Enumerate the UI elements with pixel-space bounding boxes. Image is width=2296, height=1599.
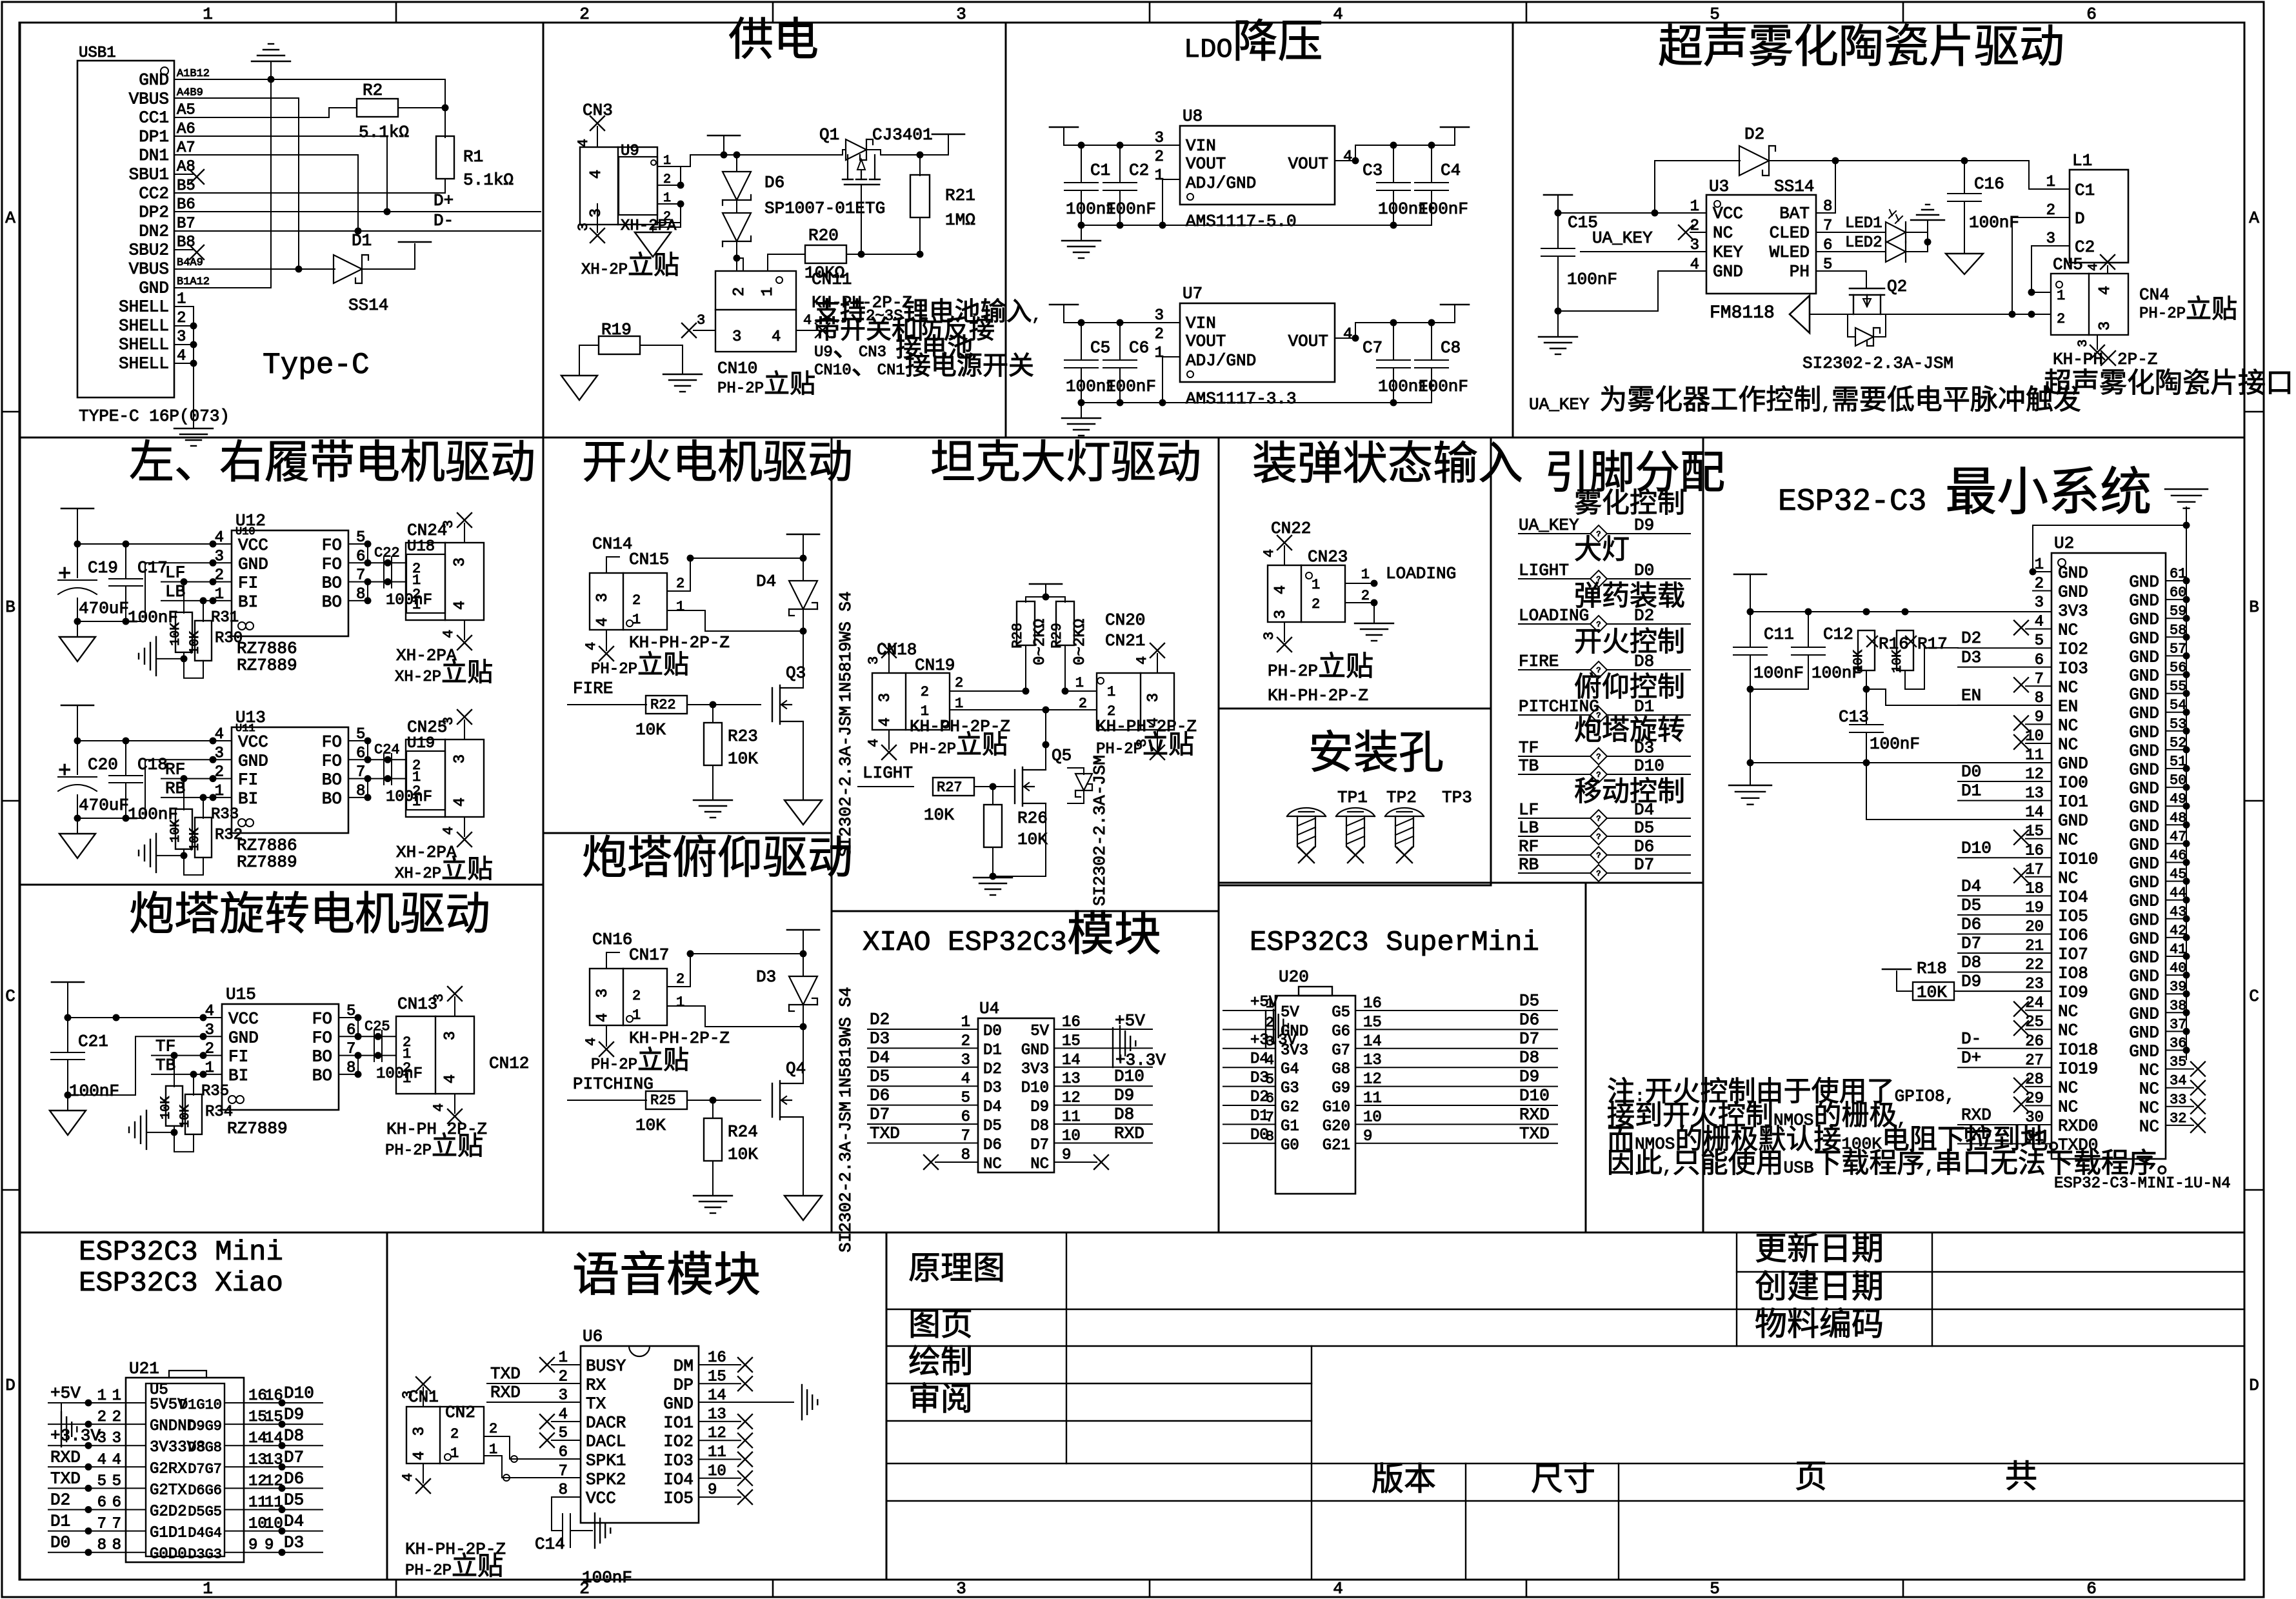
svg-text:UA_KEY: UA_KEY	[1592, 228, 1653, 248]
resistor R29 0-2K	[1056, 601, 1074, 645]
wire source down to gnd triangle	[803, 1117, 804, 1194]
svg-text:2: 2	[2057, 311, 2065, 327]
svg-text:VOUT: VOUT	[1288, 154, 1328, 174]
svg-text:RXD: RXD	[1961, 1105, 1992, 1125]
svg-text:D6: D6	[1634, 837, 1654, 856]
wire U4 right pin 10	[1054, 1142, 1152, 1143]
svg-text:左、右履带电机驱动: 左、右履带电机驱动	[129, 439, 535, 492]
svg-text:GND: GND	[228, 1028, 259, 1047]
svg-text:SI2302-2.3A-JSM: SI2302-2.3A-JSM	[1802, 354, 1953, 373]
svg-text:C1: C1	[1090, 161, 1110, 180]
svg-text:5.1kΩ: 5.1kΩ	[463, 170, 514, 190]
no-connect U2 pin 17	[2026, 876, 2051, 878]
svg-text:G6: G6	[1332, 1023, 1350, 1040]
wire L1 pin2 down to drain rail	[2012, 217, 2070, 314]
svg-text:D10: D10	[1634, 756, 1664, 776]
svg-text:13: 13	[1062, 1071, 1081, 1088]
svg-text:IO5: IO5	[663, 1489, 694, 1508]
svg-text:SPK1: SPK1	[586, 1451, 626, 1471]
svg-text:R22: R22	[650, 697, 676, 713]
svg-text:D8: D8	[1030, 1118, 1049, 1135]
wire R18 left to tap	[1897, 971, 1913, 991]
svg-text:AMS1117-5.0: AMS1117-5.0	[1186, 212, 1297, 231]
svg-text:R35: R35	[201, 1083, 229, 1100]
svg-text:4: 4	[877, 718, 894, 727]
wire U21 right pin 11	[225, 1509, 323, 1511]
svg-text:BI: BI	[238, 592, 258, 612]
svg-text:供电: 供电	[728, 16, 819, 69]
svg-text:2: 2	[1155, 326, 1164, 343]
capacitor C16	[1964, 161, 1965, 194]
svg-text:7: 7	[112, 1516, 121, 1533]
svg-text:RZ7889: RZ7889	[237, 852, 297, 872]
wire GND pin jog	[68, 1036, 222, 1095]
svg-text:G5: G5	[1332, 1004, 1350, 1021]
wire U2 pin 5	[1958, 647, 2051, 649]
connector CN5/CN4 atomizer interface	[2051, 274, 2128, 335]
svg-text:R23: R23	[728, 727, 758, 746]
svg-text:10K: 10K	[728, 749, 758, 769]
connector USB1 Type-C receptacle	[77, 61, 174, 397]
input power tap	[52, 981, 84, 983]
svg-text:9: 9	[248, 1537, 257, 1554]
svg-text:2: 2	[663, 172, 671, 187]
svg-text:GND: GND	[2129, 873, 2159, 892]
svg-text:3: 3	[1272, 610, 1290, 619]
svg-text:弹药装载: 弹药装载	[1574, 581, 1685, 614]
wire U2 pin 13	[1958, 800, 2051, 801]
wire U2 pin 16	[1958, 857, 2051, 858]
wire diode to drain node	[803, 1005, 804, 1027]
wire U2 pin 8	[1958, 705, 2051, 706]
ground symbol	[1081, 225, 1082, 239]
gnd rail under input caps	[1081, 368, 1163, 403]
svg-text:尺寸: 尺寸	[1531, 1462, 1595, 1500]
svg-text:D7: D7	[1519, 1029, 1539, 1049]
svg-text:R27: R27	[937, 779, 963, 796]
svg-text:4: 4	[1343, 148, 1352, 166]
svg-text:VCC: VCC	[586, 1489, 616, 1508]
svg-text:11: 11	[1363, 1090, 1382, 1107]
svg-text:D4: D4	[284, 1512, 304, 1531]
section box XIAO ESP32C3 module	[832, 911, 1219, 1232]
wire U2 pin 19	[1958, 914, 2051, 916]
resistor R25 10K gate	[646, 1091, 687, 1109]
svg-text:U8: U8	[1183, 106, 1203, 126]
svg-text:GND: GND	[2129, 798, 2159, 817]
capacitor C6	[1119, 323, 1121, 360]
svg-text:AMS1117-3.3: AMS1117-3.3	[1186, 389, 1297, 408]
svg-text:D9G9: D9G9	[188, 1418, 222, 1434]
no-connect U3 pin2 NC	[1690, 232, 1706, 233]
svg-text:6: 6	[112, 1494, 121, 1512]
svg-text:ADJ/GND: ADJ/GND	[1186, 351, 1256, 370]
svg-text:C24: C24	[374, 741, 400, 758]
svg-text:FI: FI	[238, 574, 258, 593]
svg-text:D8: D8	[1961, 953, 1981, 972]
svg-text:D6: D6	[1961, 914, 1981, 934]
svg-text:C6: C6	[1129, 338, 1149, 357]
capacitor C1	[1081, 145, 1082, 183]
svg-text:NC: NC	[2058, 1021, 2078, 1040]
svg-text:5: 5	[2035, 632, 2044, 650]
wire U21 right pin 14	[225, 1445, 323, 1446]
svg-text:8: 8	[112, 1537, 121, 1554]
wire U21 right pin 13	[225, 1466, 323, 1467]
capacitor C5	[1081, 323, 1082, 360]
svg-text:4: 4	[431, 1103, 447, 1112]
svg-text:语音模块: 语音模块	[572, 1250, 761, 1305]
no-connect bottom stub	[606, 1025, 607, 1046]
svg-text:D1: D1	[1250, 1107, 1269, 1125]
svg-text:U7: U7	[1183, 284, 1203, 303]
svg-text:5: 5	[1710, 5, 1720, 24]
svg-text:4: 4	[411, 1451, 428, 1460]
resistor R30 10K pulldown	[183, 582, 185, 613]
wire Q5 source to ground	[993, 803, 1046, 876]
section box ESP32C3 Mini/Xiao pinout	[20, 1232, 387, 1580]
wire U4 left pin 6 D7	[868, 1123, 978, 1125]
screw TP1	[1287, 808, 1326, 816]
nmos Q4	[772, 1083, 773, 1117]
svg-text:R2: R2	[363, 81, 383, 100]
svg-text:3: 3	[1261, 632, 1277, 640]
svg-text:D9: D9	[1961, 972, 1981, 991]
svg-text:A: A	[2249, 208, 2259, 228]
led LED2	[1816, 251, 1886, 252]
svg-text:3: 3	[1155, 130, 1164, 147]
svg-text:CN5: CN5	[2053, 255, 2083, 274]
svg-text:BO: BO	[322, 574, 342, 593]
svg-text:4: 4	[559, 1406, 568, 1423]
svg-text:FO: FO	[322, 554, 342, 574]
svg-text:2: 2	[921, 684, 929, 700]
power tap headlight	[1030, 583, 1062, 585]
wire battery + rail	[681, 155, 826, 166]
resistor R17 10K pullup	[1897, 630, 1913, 670]
svg-text:10K: 10K	[178, 1105, 193, 1128]
svg-text:C: C	[5, 987, 15, 1006]
wire U2 pin 26	[1958, 1048, 2051, 1049]
wire U21 right pin 12	[225, 1487, 323, 1489]
atomizer IC U3 FM8118	[1706, 195, 1816, 294]
power tap above D6	[708, 135, 740, 137]
svg-text:4: 4	[452, 601, 469, 610]
wire CN pin1 to drain node	[667, 610, 803, 631]
section box fire motor drive	[543, 437, 832, 833]
wires CN2 to SPK	[484, 1436, 581, 1459]
resistor R28 0-2K	[1017, 601, 1035, 645]
wire R26 to ground	[992, 847, 993, 876]
wire U21 right pin 16	[225, 1402, 323, 1403]
no-connect bottom stub	[464, 817, 465, 836]
svg-text:TF: TF	[1519, 738, 1539, 758]
svg-text:A4B9: A4B9	[177, 86, 203, 99]
wire U2 pin 21	[1958, 952, 2051, 954]
ground earth	[694, 799, 732, 801]
svg-text:C14: C14	[535, 1534, 565, 1554]
schottky body diode Q2	[1848, 314, 1855, 337]
svg-text:创建日期: 创建日期	[1755, 1270, 1884, 1308]
svg-text:IO7: IO7	[2058, 945, 2088, 964]
svg-text:C5: C5	[1090, 338, 1110, 357]
svg-text:G1: G1	[1281, 1118, 1299, 1135]
svg-text:14: 14	[1363, 1033, 1382, 1051]
wire U21 left pin 6	[48, 1509, 146, 1511]
svg-text:ESP32C3 Mini: ESP32C3 Mini	[79, 1236, 283, 1269]
wire VCC rail	[1558, 212, 1706, 214]
wire U20 left pin 3	[1223, 1048, 1275, 1049]
wire U4 left pin 4 D5	[868, 1085, 978, 1087]
gnd rail	[1750, 762, 2051, 763]
wire U2 pin 31	[1958, 1143, 2051, 1145]
svg-text:4: 4	[112, 1451, 121, 1469]
svg-text:D4: D4	[756, 572, 776, 591]
svg-text:DACL: DACL	[586, 1432, 626, 1451]
svg-text:DN2: DN2	[139, 221, 169, 241]
svg-text:C16: C16	[1974, 174, 2004, 194]
svg-text:D2: D2	[1961, 629, 1981, 648]
svg-text:TB: TB	[1519, 756, 1539, 776]
wire PH pin to Q2 gate	[1816, 271, 1866, 288]
svg-text:100nF: 100nF	[1106, 377, 1156, 396]
svg-text:页: 页	[1795, 1461, 1827, 1498]
svg-text:1: 1	[559, 1349, 568, 1367]
svg-text:U4: U4	[979, 999, 999, 1018]
svg-text:G2D2: G2D2	[150, 1503, 187, 1521]
svg-text:C20: C20	[88, 755, 118, 774]
power tap output	[932, 134, 964, 136]
wire U20 left pin 1	[1223, 1010, 1275, 1011]
svg-text:CC2: CC2	[139, 184, 169, 203]
no-connect CN18 bottom	[888, 730, 890, 749]
svg-text:RZ7889: RZ7889	[237, 656, 297, 675]
3V3 rail wire	[1750, 611, 2051, 612]
svg-text:GND: GND	[139, 70, 169, 90]
svg-text:坦克大灯驱动: 坦克大灯驱动	[930, 439, 1201, 492]
resistor R31 10K pulldown	[203, 601, 204, 621]
svg-text:A6: A6	[177, 121, 195, 138]
svg-text:ADJ/GND: ADJ/GND	[1186, 174, 1256, 193]
svg-text:LB: LB	[165, 582, 185, 601]
svg-text:10K: 10K	[635, 1116, 666, 1135]
supermini power fork	[1273, 1010, 1274, 1043]
svg-text:CN12: CN12	[489, 1054, 529, 1073]
section box turret rotation motor drive	[20, 885, 543, 1232]
svg-text:NC: NC	[2058, 621, 2078, 640]
svg-text:6: 6	[97, 1494, 106, 1512]
svg-text:RX: RX	[586, 1375, 606, 1394]
svg-text:D5: D5	[983, 1118, 1002, 1135]
svg-text:3: 3	[866, 656, 882, 665]
source-drain rail	[1810, 314, 2051, 315]
svg-text:6: 6	[2086, 1579, 2097, 1598]
wire CN11 pin2 to D6 bottom	[737, 258, 743, 271]
svg-text:13: 13	[1363, 1052, 1382, 1069]
wire GND pin jog	[145, 759, 232, 818]
svg-text:4: 4	[97, 1451, 106, 1469]
svg-text:?: ?	[1596, 869, 1601, 878]
section box Type-C	[20, 23, 543, 437]
svg-text:SP1007-01ETG: SP1007-01ETG	[764, 199, 885, 218]
svg-text:16: 16	[708, 1349, 726, 1367]
svg-text:GND: GND	[2129, 929, 2159, 949]
svg-text:GND: GND	[2129, 629, 2159, 648]
svg-text:30: 30	[2025, 1109, 2044, 1127]
wire R19 right to ground	[640, 345, 683, 373]
wire U4 left pin 1 D2	[868, 1029, 978, 1030]
svg-text:10K: 10K	[924, 805, 954, 825]
wire U21 left pin 5	[48, 1487, 146, 1489]
svg-text:CN23: CN23	[1308, 547, 1348, 567]
svg-text:SBU2: SBU2	[129, 241, 169, 260]
svg-text:1: 1	[450, 1445, 459, 1462]
svg-text:0~2KΩ: 0~2KΩ	[1072, 619, 1089, 665]
svg-text:D7G7: D7G7	[188, 1461, 222, 1477]
wire battery - to gnd	[653, 223, 681, 232]
svg-text:IO5: IO5	[2058, 907, 2088, 926]
svg-text:USB1: USB1	[79, 45, 116, 62]
wire R17 to IO2/D2 net	[1905, 648, 1958, 689]
svg-text:G2: G2	[1281, 1099, 1299, 1116]
no-connect U2 pin 10	[2026, 743, 2051, 744]
svg-text:27: 27	[2025, 1052, 2044, 1069]
svg-text:1: 1	[1107, 684, 1115, 700]
svg-text:2: 2	[1155, 148, 1164, 166]
svg-text:D10: D10	[1519, 1086, 1550, 1105]
svg-text:TB: TB	[155, 1056, 175, 1075]
no-connect CN21 top	[1157, 654, 1158, 673]
output connector CN24	[406, 543, 484, 620]
wire C11/C12 bottoms	[1750, 655, 1751, 767]
svg-text:IO2: IO2	[2058, 639, 2088, 659]
no-connect U6 pin5	[552, 1440, 581, 1441]
wire D1 to power tap	[362, 244, 415, 269]
svg-text:U21: U21	[129, 1359, 159, 1378]
svg-text:2: 2	[1079, 696, 1087, 712]
svg-text:B7: B7	[177, 215, 195, 232]
svg-text:GND: GND	[2129, 704, 2159, 723]
svg-text:+3.3V: +3.3V	[50, 1426, 101, 1445]
svg-text:VIN: VIN	[1186, 136, 1216, 156]
svg-text:BO: BO	[312, 1047, 332, 1067]
no-connect CN10 pin3	[694, 330, 715, 331]
pins of U9/CN3	[657, 166, 681, 167]
svg-text:B1A12: B1A12	[177, 276, 210, 288]
svg-text:IO9: IO9	[2058, 983, 2088, 1002]
svg-text:NC: NC	[2139, 1098, 2159, 1118]
svg-text:3: 3	[2046, 230, 2055, 248]
svg-text:470uF: 470uF	[79, 599, 129, 618]
svg-text:RF: RF	[1519, 837, 1539, 856]
svg-text:超声雾化陶瓷片驱动: 超声雾化陶瓷片驱动	[1658, 23, 2064, 76]
svg-text:3: 3	[877, 693, 894, 702]
capacitor C7	[1393, 323, 1394, 360]
led LED1	[1816, 232, 1886, 233]
svg-text:SI2302-2.3A-JSM: SI2302-2.3A-JSM	[1090, 755, 1110, 906]
wire U21 left pin 4	[48, 1466, 146, 1467]
svg-text:R28: R28	[1010, 623, 1026, 649]
wire U4 right pin 11	[1054, 1123, 1152, 1125]
svg-text:Q2: Q2	[1887, 277, 1907, 296]
connector CN1/CN2 speaker	[406, 1407, 484, 1463]
svg-text:KEY: KEY	[1713, 243, 1743, 262]
svg-text:15: 15	[1062, 1032, 1081, 1050]
svg-text:DP: DP	[674, 1375, 694, 1394]
wire U21 left pin 8	[48, 1552, 146, 1553]
svg-text:VCC: VCC	[238, 536, 268, 555]
no-connect U2 pin 25	[2026, 1029, 2051, 1030]
svg-text:FIRE: FIRE	[573, 679, 613, 698]
svg-text:TP3: TP3	[1442, 788, 1472, 807]
svg-text:VCC: VCC	[228, 1009, 259, 1029]
svg-text:U6: U6	[583, 1327, 603, 1346]
svg-text:470uF: 470uF	[79, 796, 129, 815]
svg-text:D6: D6	[870, 1086, 890, 1105]
svg-text:共: 共	[2005, 1460, 2037, 1498]
no-connect U2 pin 4	[2026, 629, 2051, 630]
connector CN18/CN19	[872, 673, 950, 730]
svg-text:SHELL: SHELL	[119, 335, 169, 354]
svg-text:3: 3	[441, 520, 457, 528]
svg-text:G7: G7	[1332, 1042, 1350, 1060]
wire U2 pin 12	[1958, 781, 2051, 782]
svg-text:GND: GND	[2058, 563, 2088, 583]
svg-text:IO1: IO1	[663, 1413, 694, 1433]
section box turret pitch drive	[543, 833, 832, 1232]
body diode of Q1	[843, 150, 845, 155]
svg-text:100nF: 100nF	[376, 1065, 423, 1083]
svg-text:审阅: 审阅	[908, 1382, 973, 1420]
wires CN20 to resistors	[1072, 690, 1097, 692]
section box pin assignment	[1491, 437, 1703, 883]
svg-text:3: 3	[594, 989, 612, 998]
output power tap	[1441, 126, 1469, 128]
svg-text:C7: C7	[1363, 338, 1383, 357]
wire to gate	[687, 704, 761, 705]
svg-text:KH-PH-2P-Z: KH-PH-2P-Z	[1268, 686, 1368, 705]
svg-text:4: 4	[594, 618, 612, 627]
svg-text:3: 3	[961, 1052, 970, 1069]
wires FO/BO to connector	[348, 543, 368, 545]
svg-text:DACR: DACR	[586, 1413, 626, 1433]
svg-text:10: 10	[1062, 1127, 1081, 1145]
svg-text:3: 3	[956, 5, 966, 24]
svg-text:IO18: IO18	[2058, 1040, 2098, 1060]
ground fork C14	[594, 1513, 595, 1548]
svg-text:2: 2	[676, 971, 684, 987]
svg-text:100nF: 100nF	[1106, 199, 1156, 219]
svg-text:SI2302-2.3A-JSM: SI2302-2.3A-JSM	[836, 706, 855, 857]
svg-text:2: 2	[177, 310, 186, 327]
svg-text:D9: D9	[1030, 1099, 1049, 1116]
stub top left	[606, 952, 619, 969]
svg-text:KH-PH: KH-PH	[2053, 350, 2103, 369]
wire U4 left pin 2 D3	[868, 1047, 978, 1049]
svg-text:3V3: 3V3	[2058, 601, 2088, 621]
svg-text:RB: RB	[165, 779, 185, 798]
gnd rail under caps	[77, 795, 78, 818]
svg-text:NC: NC	[2058, 1097, 2078, 1116]
no-connect top stub	[464, 523, 465, 543]
wire VCC to C14	[552, 1497, 581, 1513]
svg-text:4: 4	[2035, 614, 2044, 631]
svg-text:Q5: Q5	[1052, 746, 1072, 765]
svg-text:TYPE-C 16P(073): TYPE-C 16P(073)	[79, 407, 230, 426]
svg-text:SS14: SS14	[348, 296, 388, 315]
capacitor C24 across outputs	[383, 754, 384, 785]
svg-text:GND: GND	[2129, 1042, 2159, 1061]
